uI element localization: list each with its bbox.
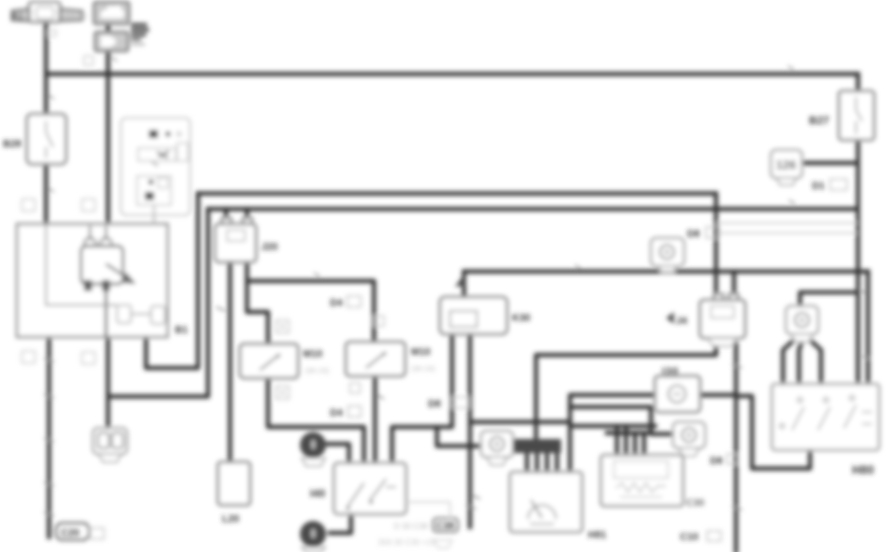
svg-text:I30: I30 bbox=[662, 366, 679, 378]
fuse B28 bbox=[27, 114, 66, 164]
wire flasher left feed bbox=[570, 395, 655, 472]
B1 internal L wire bbox=[46, 224, 117, 305]
instrument H81 bbox=[510, 472, 582, 532]
wire M10b out bbox=[373, 376, 377, 463]
flasher unit I30 bbox=[655, 376, 700, 412]
battery A1 bbox=[29, 2, 60, 22]
wire bus2a bbox=[198, 191, 716, 195]
junction J4 bbox=[714, 294, 723, 302]
svg-text:D4: D4 bbox=[330, 298, 343, 309]
wire M10a out bbox=[268, 378, 364, 463]
ignition switch upper bbox=[94, 2, 129, 24]
svg-text:D4: D4 bbox=[330, 408, 343, 419]
tick bus1 right bbox=[788, 66, 794, 70]
tick M10b wire bbox=[377, 395, 384, 399]
svg-text:K30: K30 bbox=[512, 313, 531, 324]
svg-text:B28: B28 bbox=[3, 139, 22, 150]
K40 contacts bbox=[348, 479, 386, 506]
lamp unit H8 bbox=[772, 384, 879, 450]
svg-text:30A 30 C30 +15: 30A 30 C30 +15 bbox=[378, 538, 436, 547]
connector icon2 bbox=[673, 422, 705, 456]
splice icon on B1 output bbox=[93, 428, 127, 462]
tick bus2a right bbox=[789, 200, 795, 204]
connector icon4 bbox=[651, 238, 684, 272]
tick b28 below bbox=[48, 188, 54, 192]
svg-text:I40: I40 bbox=[310, 488, 325, 500]
small sq label left pair upper bbox=[22, 199, 35, 211]
svg-text:D8: D8 bbox=[428, 399, 441, 410]
ticks left ground run bbox=[44, 358, 54, 516]
wire J20 branch right bbox=[247, 281, 374, 342]
wire icon1 feed bbox=[437, 427, 481, 446]
junction unit B1 bbox=[17, 224, 168, 337]
svg-text:126: 126 bbox=[776, 158, 796, 172]
connector icon1 bbox=[481, 431, 513, 465]
ignition switch lower bbox=[95, 32, 128, 51]
svg-text:C20: C20 bbox=[61, 528, 80, 539]
tick J20 wire bbox=[216, 307, 226, 311]
wire icon3 fan bbox=[783, 341, 821, 384]
H81 gauge bbox=[528, 505, 556, 519]
wire B1 pin splice bbox=[106, 337, 110, 429]
label C20 left bbox=[56, 523, 89, 540]
switch lever M10a bbox=[260, 354, 280, 370]
wire bundle right bbox=[392, 334, 452, 463]
svg-text:C10: C10 bbox=[680, 532, 699, 543]
wire icon2 feed bbox=[570, 407, 673, 434]
wire W1 to B1 bbox=[146, 194, 198, 369]
wire K30 right down bbox=[468, 334, 472, 527]
wire J20 right down bbox=[247, 262, 268, 344]
fuse B27 bbox=[839, 91, 874, 140]
svg-text:M10: M10 bbox=[303, 349, 323, 360]
wire J20 left down to L20 bbox=[228, 262, 232, 462]
faint K40 out right bbox=[406, 502, 450, 518]
ignition symbol in B1 bbox=[81, 226, 136, 337]
wire icon3 feed bbox=[800, 292, 857, 306]
wire ground2 link bbox=[330, 514, 351, 533]
wire B27 drop bbox=[856, 74, 860, 384]
sq M10a lower bbox=[276, 386, 289, 399]
tick B27 run bbox=[859, 290, 866, 293]
tick battery wire bbox=[48, 30, 56, 36]
svg-text:D 30 C38: D 30 C38 bbox=[394, 522, 428, 531]
wire battery down bbox=[44, 22, 48, 114]
svg-text:H81: H81 bbox=[588, 530, 607, 541]
small sq ignition bus bbox=[84, 56, 93, 65]
sq M10b lower bbox=[350, 383, 360, 393]
tick J20 branch bbox=[314, 273, 320, 277]
wire ground1 link bbox=[327, 444, 349, 463]
wire bus1 bbox=[46, 72, 858, 76]
wire K30 tee right bbox=[470, 420, 570, 424]
wire H81 stubs bbox=[527, 450, 557, 472]
C30 internals bbox=[614, 461, 668, 478]
svg-text:A1: A1 bbox=[12, 11, 24, 21]
connector 126 bbox=[771, 150, 802, 185]
wire B28 to B1 bbox=[44, 164, 48, 224]
fusebox internals bbox=[137, 130, 188, 224]
small sq label left pair lower bbox=[22, 351, 35, 363]
svg-text:D8: D8 bbox=[710, 456, 723, 467]
connector J20 bbox=[222, 218, 231, 226]
switch M10b bbox=[346, 342, 405, 376]
connector icon3 bbox=[786, 306, 818, 342]
svg-text:(30-15): (30-15) bbox=[305, 366, 330, 375]
switch lever M10b bbox=[366, 352, 386, 368]
wire 126 link bbox=[802, 161, 857, 165]
wire W2 to splice bbox=[108, 209, 208, 397]
wire ignition down bbox=[106, 51, 110, 224]
svg-text:C30: C30 bbox=[686, 498, 705, 509]
connector L20 bbox=[218, 462, 250, 505]
tick bus3 corner run bbox=[862, 356, 870, 359]
svg-text:D8: D8 bbox=[687, 229, 700, 240]
wire J20 stubs bbox=[226, 209, 247, 219]
sq M10a upper bbox=[276, 320, 289, 333]
ticks K30 right run bbox=[466, 495, 480, 509]
wire C30 bundle2 bbox=[607, 431, 651, 435]
ground G1 bbox=[300, 432, 326, 466]
fusebox bbox=[121, 118, 190, 215]
wire bus3 corner down bbox=[866, 272, 870, 385]
svg-text:B27: B27 bbox=[809, 115, 829, 127]
wire K30 top bbox=[462, 272, 466, 298]
svg-text:B1: B1 bbox=[175, 325, 188, 336]
node bundleA dark bar bbox=[513, 439, 561, 453]
unit C30 bbox=[601, 455, 683, 506]
relay K30 bbox=[440, 297, 507, 334]
wire C30 bundle bbox=[570, 424, 655, 428]
svg-text:L20: L20 bbox=[222, 514, 240, 525]
relay K40 bbox=[334, 463, 406, 514]
ground G2 bbox=[300, 521, 326, 552]
wire Wa vertical bbox=[536, 194, 716, 447]
faint cross lines right bbox=[716, 223, 857, 233]
H8 contacts bbox=[780, 396, 872, 430]
node arrow K30 feed bbox=[455, 274, 466, 287]
sq M10b upper bbox=[374, 316, 384, 326]
label ignition codes bbox=[131, 23, 147, 27]
tick ignition wire bbox=[111, 57, 117, 61]
wire flasher right bbox=[700, 393, 736, 397]
tick b28 above bbox=[48, 95, 54, 99]
wire B1 pin ground-run bbox=[47, 337, 51, 537]
svg-text:D1: D1 bbox=[812, 181, 825, 192]
wire J4 down bbox=[734, 344, 738, 552]
wire bus3 bbox=[464, 269, 868, 273]
B1 internal icon a bbox=[117, 305, 131, 323]
svg-text:J20: J20 bbox=[261, 242, 278, 253]
INTERIORS bbox=[46, 130, 872, 524]
svg-text:J4: J4 bbox=[676, 316, 688, 327]
svg-text:H80: H80 bbox=[852, 463, 874, 477]
wire ignition stub bbox=[106, 21, 110, 34]
wire J4 right stub bbox=[732, 272, 736, 295]
B1 internal icon b bbox=[151, 306, 165, 324]
ticks J4 run bbox=[732, 364, 742, 510]
switch M10a bbox=[240, 344, 298, 378]
svg-text:30A 30: 30A 30 bbox=[62, 12, 87, 21]
wire C30 stubs bbox=[617, 426, 644, 455]
svg-text:(30-15): (30-15) bbox=[411, 364, 436, 373]
wire H8 loop bbox=[736, 396, 810, 469]
svg-text:M10: M10 bbox=[411, 347, 431, 358]
CONNECTOR ICONS bbox=[93, 150, 818, 552]
svg-text:C38: C38 bbox=[436, 521, 455, 532]
tick bus3 bbox=[575, 265, 581, 269]
wire bus2b bbox=[208, 207, 857, 211]
